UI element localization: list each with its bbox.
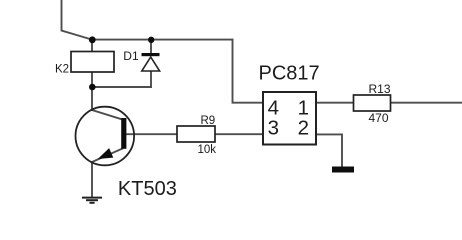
svg-text:470: 470 [369,111,389,125]
svg-text:R13: R13 [369,82,391,96]
svg-text:D1: D1 [123,49,139,63]
svg-text:2: 2 [298,117,309,140]
svg-text:10k: 10k [198,144,217,156]
svg-text:3: 3 [268,117,279,140]
svg-text:K2: K2 [55,64,69,76]
svg-text:R9: R9 [201,115,216,127]
svg-text:PC817: PC817 [259,63,320,85]
svg-text:KT503: KT503 [118,178,177,200]
